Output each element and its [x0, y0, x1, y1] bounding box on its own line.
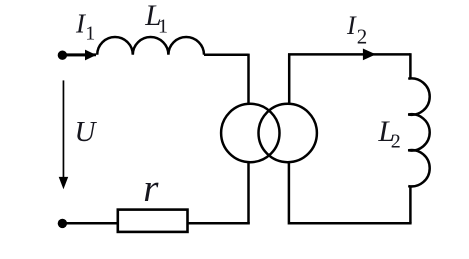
wire: vertical into transformer primary top [247, 54, 250, 105]
transformer secondary winding circle [259, 104, 317, 162]
wire: right loop left vertical (bottom) [288, 162, 291, 224]
svg-text:2: 2 [391, 130, 401, 152]
voltage arrow U [59, 80, 68, 189]
svg-text:1: 1 [158, 15, 168, 37]
current arrow I1 [62, 50, 96, 61]
wire: top horizontal from L1 to transformer branch [204, 54, 249, 57]
svg-text:r: r [143, 167, 159, 210]
wire: right loop top horizontal [288, 53, 410, 56]
svg-text:1: 1 [85, 23, 95, 45]
transformer primary winding circle [221, 104, 279, 162]
svg-text:I: I [346, 11, 357, 40]
wire: right loop bottom horizontal [289, 222, 412, 225]
current arrow I2 [363, 49, 376, 61]
svg-text:U: U [75, 116, 98, 148]
wire: top-left horizontal from terminal to inductor [62, 53, 96, 56]
wire: bottom horizontal from branch to resistor [188, 222, 250, 225]
inductor L2 (three humps bulging right) [408, 78, 429, 186]
wire: bottom horizontal from resistor to terminal [62, 222, 118, 225]
terminal node (bottom-left) [58, 219, 67, 228]
wire: right loop right vertical lead to L2 [409, 53, 412, 79]
wire: right loop right vertical lead from L2 to bottom [409, 186, 412, 223]
svg-text:2: 2 [357, 24, 368, 48]
resistor r body [118, 210, 188, 232]
wire: right loop left vertical (top) [288, 54, 291, 105]
terminal node (top-left) [58, 51, 67, 60]
wire: vertical from transformer primary bottom [247, 162, 250, 223]
inductor L1 (three humps) [97, 37, 204, 55]
